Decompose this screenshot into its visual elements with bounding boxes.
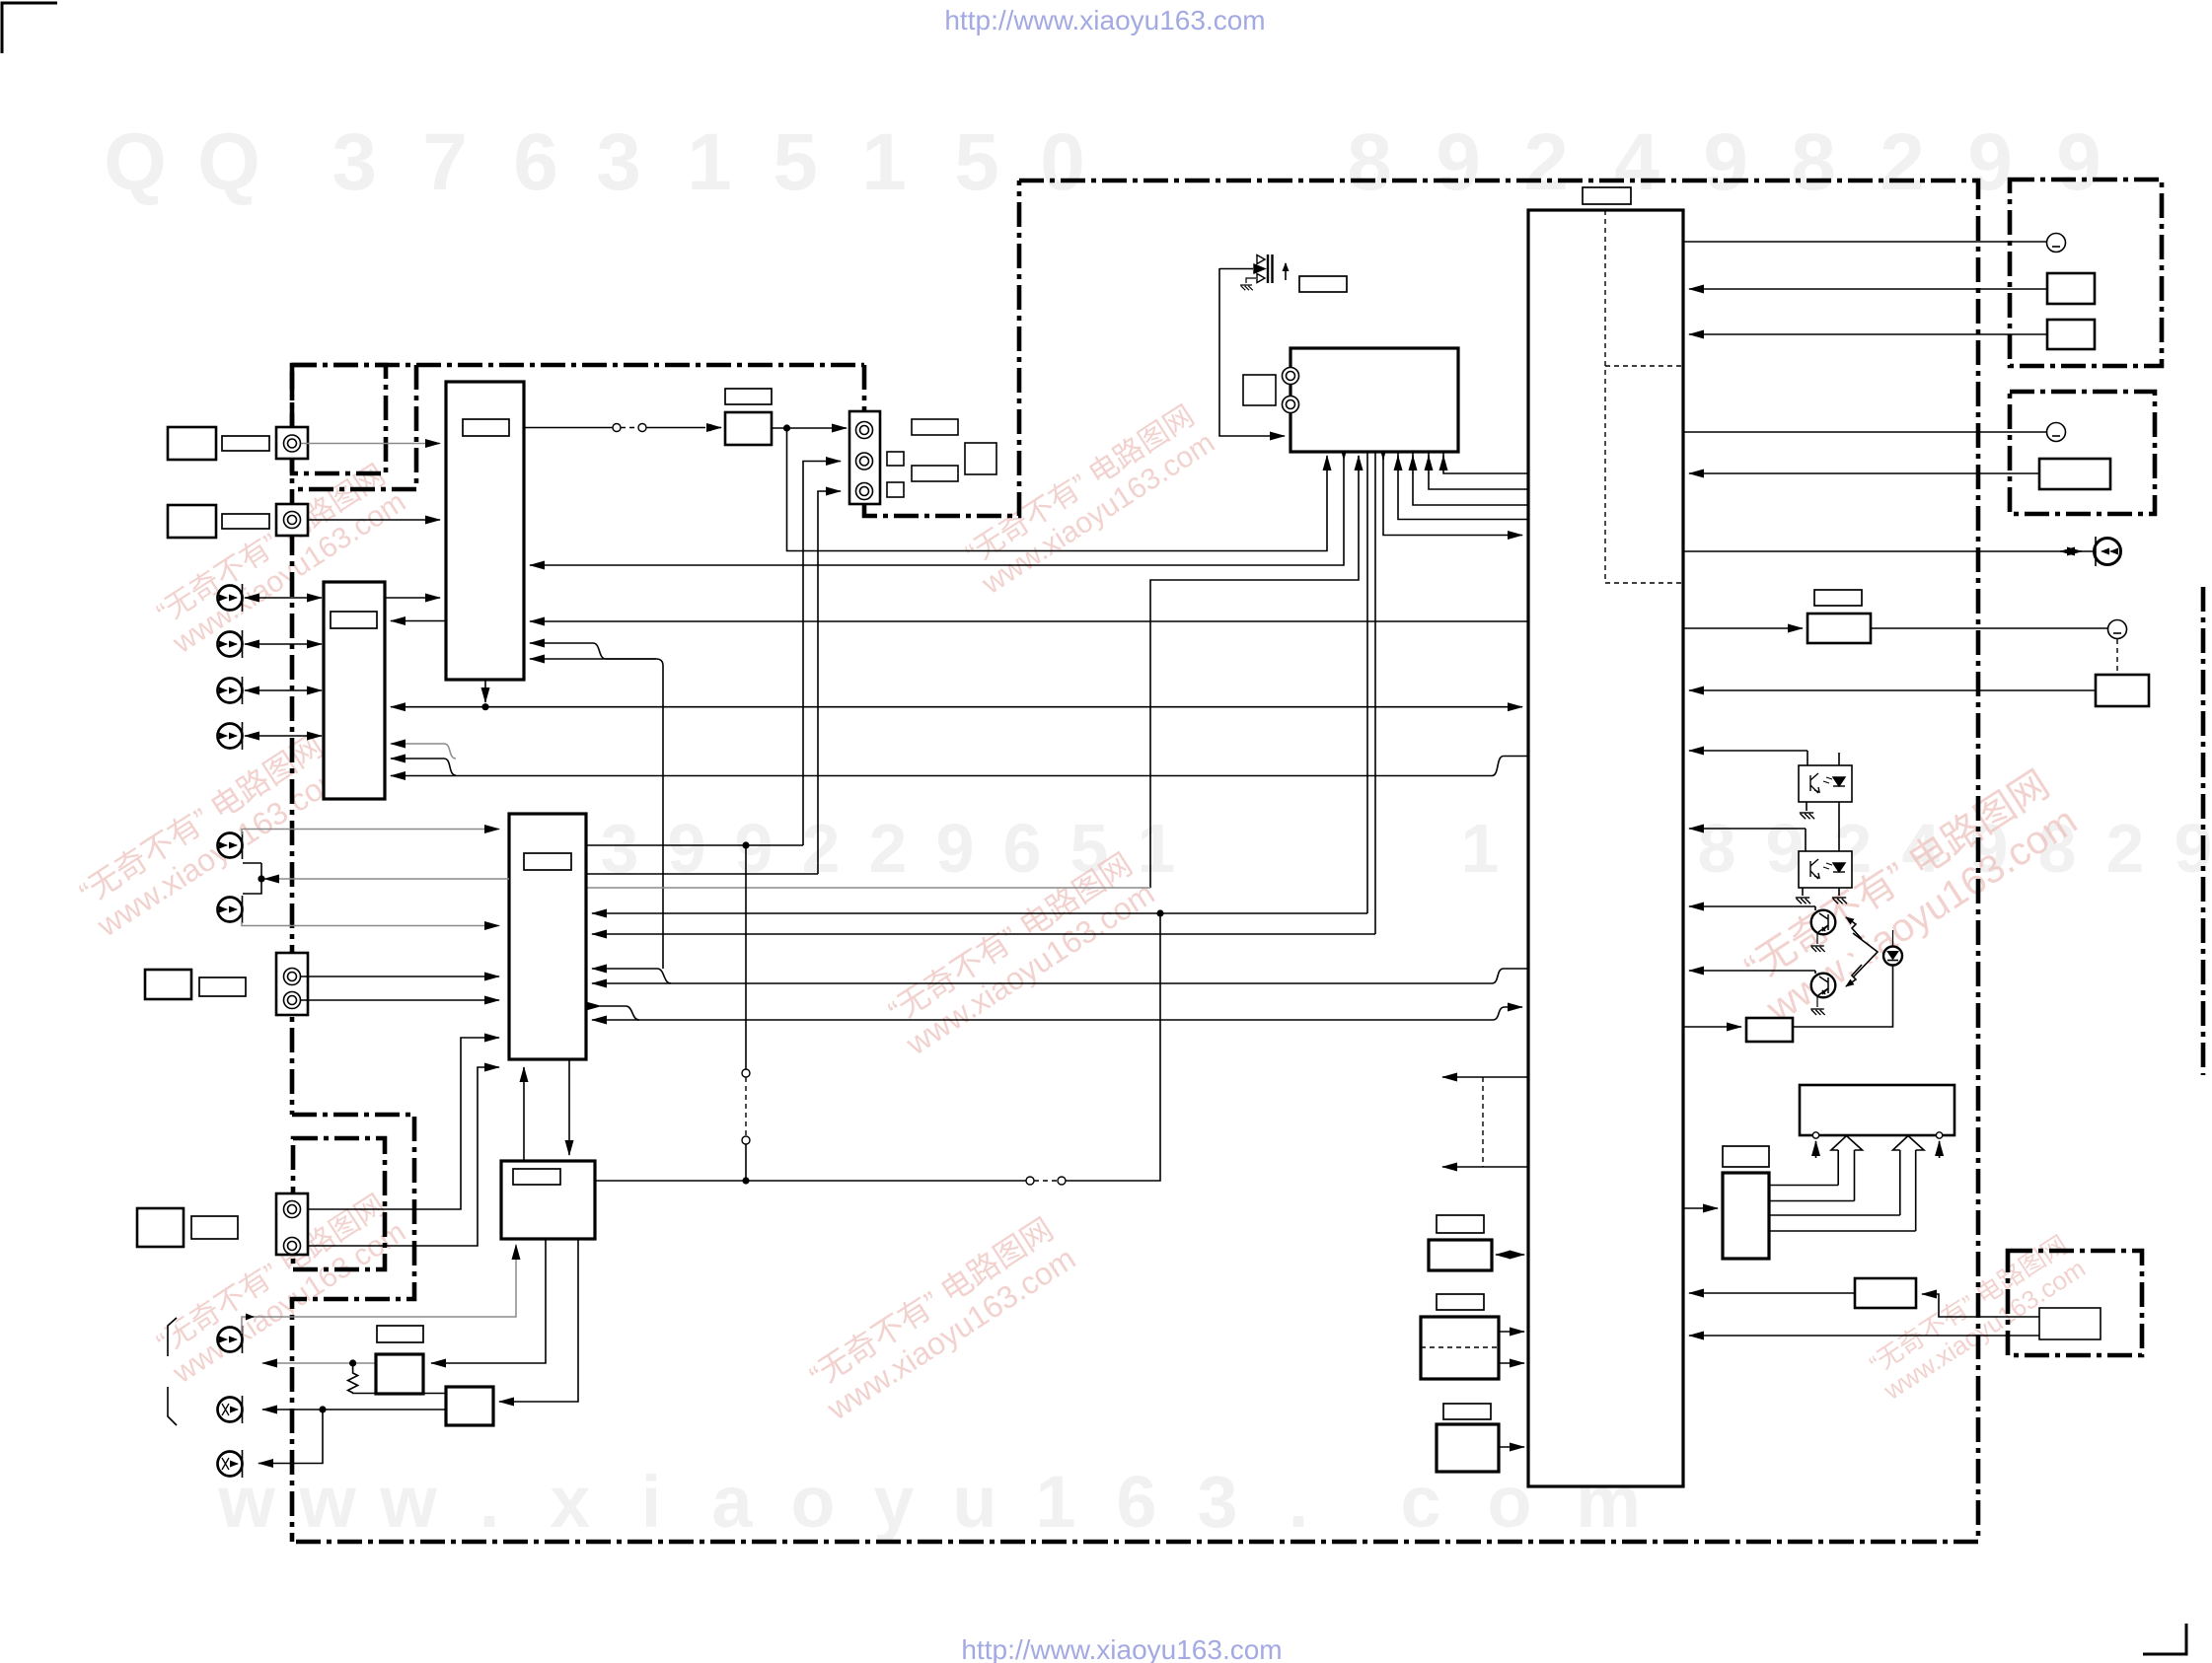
wire gray line y900 x1166 to block E: [586, 887, 1150, 889]
optocoupler PC2 internals: [1810, 859, 1845, 879]
svg-text:9: 9: [2175, 810, 2212, 887]
svg-text:2: 2: [869, 810, 908, 887]
block E main: [509, 814, 586, 1059]
wire head H7 up to block G bottom: [242, 1245, 516, 1334]
svg-text:.: .: [479, 1461, 500, 1543]
wire piezo lower lead to ground: [1246, 278, 1256, 283]
wire block B input y769 cascade: [391, 758, 444, 759]
svg-text:5: 5: [773, 117, 818, 207]
piezo sounder symbol: [1254, 254, 1273, 283]
phototransistor Q2: [1811, 974, 1836, 998]
svg-text:http://www.xiaoyu163.com: http://www.xiaoyu163.com: [961, 1634, 1282, 1663]
svg-text:9: 9: [2056, 117, 2101, 207]
hollow arrow left head: [1831, 1136, 1863, 1151]
wire IC to phototransistor Q2: [1689, 970, 1815, 972]
wire vertical x672 down to E region: [662, 666, 664, 969]
wire IC to block A y630: [530, 620, 1528, 622]
board boundary chain: top horizontal to connector: [292, 363, 864, 368]
display feed arrow left: [1815, 1141, 1817, 1158]
svg-text:Q: Q: [104, 117, 167, 207]
LED D1 top lead: [1892, 930, 1894, 947]
svg-text:x: x: [550, 1461, 590, 1543]
light chevron to LED: [1853, 933, 1878, 976]
speaker ring 2: [2047, 423, 2066, 442]
svg-text:3: 3: [596, 117, 641, 207]
ground PC1 transistor: [1806, 802, 1807, 811]
wire jack row3-2 up to block E y1082: [308, 1067, 499, 1246]
jack J2 rings: [284, 512, 301, 529]
svg-text:8: 8: [1791, 117, 1836, 207]
wire head H7 lower to block H line: [262, 1362, 376, 1364]
wire block G down to block I: [499, 1239, 578, 1402]
svg-text:8: 8: [1347, 117, 1392, 207]
block A main: [446, 382, 524, 680]
display feed arrow right: [1939, 1141, 1941, 1158]
wire line-amp to connector CN1: [772, 427, 847, 429]
block line-amp: [725, 412, 772, 445]
svg-text:9: 9: [1436, 117, 1481, 207]
wire speaker rect 2 to IC: [1689, 472, 2039, 474]
wire bus line y512 tuner to IC: [1413, 452, 1528, 505]
tape head H1: [218, 584, 243, 612]
wire tuner y588 jog to vertical x1166: [1150, 456, 1359, 776]
wire long vertical bus x1386 tuner to E-row: [1366, 452, 1368, 913]
svg-text:1: 1: [861, 117, 907, 207]
phototransistor Q1: [1811, 910, 1836, 935]
wire IC y1354 to chain box rect: [1689, 1335, 2039, 1337]
wire jack J2 to block A: [309, 519, 440, 521]
board boundary chain: jog at cassette section: [292, 365, 416, 489]
svg-text:6: 6: [1003, 810, 1042, 887]
wire block G output y1197 with jumps to IC riser: [595, 1180, 1026, 1182]
wire junction steps to H5/H6: [243, 863, 261, 894]
wire block B input y786 long line to IC y766: [391, 757, 1528, 776]
jack row3 connector body: [276, 1193, 308, 1255]
tape head H9 erase: [218, 1450, 243, 1478]
svg-text:2: 2: [2106, 810, 2145, 887]
wire speaker rect 1a to IC: [1689, 288, 2047, 290]
board boundary chain: left vertical upper: [290, 365, 295, 1115]
svg-text:Q: Q: [197, 117, 260, 207]
block I main: [446, 1387, 493, 1425]
ground Q2: [1816, 996, 1818, 1007]
square SW a: [887, 452, 904, 466]
svg-text:y: y: [873, 1461, 914, 1543]
block H main: [376, 1354, 423, 1394]
wire bus line y496 tuner to IC: [1429, 452, 1528, 489]
label rect above IC block D: [1583, 187, 1631, 204]
label block H: [377, 1326, 423, 1342]
wire block B to block A y606: [385, 597, 440, 599]
board boundary chain: connector drop: [864, 181, 1019, 516]
hollow arrow right stem wires: [1769, 1215, 1916, 1231]
wire bus line y542 tuner to IC with arrow: [1383, 456, 1522, 536]
page watermark: pink diagonal stamps: [148, 458, 411, 661]
wire block N to IC: [1689, 1292, 1855, 1294]
display block W: [1800, 1085, 1954, 1135]
block G main: [501, 1161, 595, 1239]
speaker rect 2: [2039, 459, 2110, 489]
wire block A cascade input y668 to vertical x672: [530, 658, 656, 660]
light bolt arrow to Q2: [1846, 965, 1862, 986]
tape head H3: [218, 677, 243, 704]
label block G: [513, 1169, 560, 1185]
wire piezo feed from bus: [1219, 268, 1285, 436]
wire block K to IC lower: [1499, 1362, 1524, 1364]
connector CN1 ring 3: [856, 483, 873, 500]
board boundary chain: lower-left inner box: [293, 1138, 385, 1269]
wire IC to optocoupler PC1: [1689, 750, 1807, 752]
wire jack row2-2 to block E: [301, 999, 499, 1001]
ext tape head symbol right: [2095, 537, 2121, 566]
label block K: [1437, 1294, 1484, 1310]
wire head H1 to block B bidirectional: [245, 597, 322, 599]
wire CN1 ring2 from switch vertical x814: [803, 462, 841, 846]
jack row2 connector body: [276, 953, 308, 1015]
svg-text:w: w: [298, 1461, 356, 1543]
connector CN1 ring 1: [856, 422, 873, 439]
wire long y1034 block E to IC arrow: [592, 1007, 1522, 1020]
wire IC to ext head bidirectional y559: [1683, 550, 2094, 552]
hollow arrow right head: [1893, 1136, 1925, 1151]
square left of block C: [1243, 375, 1276, 405]
svg-text:9: 9: [735, 810, 774, 887]
svg-text:2: 2: [1523, 117, 1569, 207]
connector CN1 body: [849, 411, 880, 504]
square matrix big: [965, 443, 996, 474]
svg-text:w: w: [379, 1461, 437, 1543]
block remote driver: [1807, 614, 1871, 643]
up arrow beside piezo: [1285, 263, 1287, 280]
svg-text:i: i: [641, 1461, 662, 1543]
wire block E y886 to switch vertical x829: [586, 873, 818, 875]
speaker rect 1a: [2047, 273, 2095, 304]
board boundary chain: top-left cassette box: [292, 365, 386, 473]
wire block L to IC: [1499, 1446, 1524, 1448]
wire vertical x756 with jump down to motor line: [745, 845, 747, 1069]
svg-text:6: 6: [513, 117, 558, 207]
tape head H8 erase: [218, 1396, 243, 1423]
wire head H2 to block B bidirectional: [245, 643, 322, 645]
wire vertical x1166 junction to gray E line: [1149, 776, 1151, 889]
svg-text:7: 7: [422, 117, 468, 207]
IC block D main: [1528, 210, 1683, 1486]
crop mark bottom-right: [2143, 1624, 2186, 1654]
wire long line y716 block B to IC: [391, 706, 1522, 708]
display feed circle right: [1936, 1132, 1942, 1138]
svg-text:0: 0: [1040, 117, 1085, 207]
svg-text:9: 9: [936, 810, 975, 887]
wire IC to speaker ring 2: [1683, 431, 2047, 433]
square SW b: [887, 482, 904, 497]
wire block E input y926 from bus x1386: [592, 912, 1367, 914]
speaker box chain top-right 2: [2010, 392, 2155, 514]
board boundary chain: main outline top/right/bottom: [292, 181, 1978, 1542]
jack J1 square: [276, 427, 308, 459]
svg-text:9: 9: [1703, 117, 1748, 207]
rect matrix upper: [912, 419, 958, 435]
svg-text:1: 1: [687, 117, 732, 207]
svg-text:1: 1: [1035, 1461, 1075, 1543]
bracket mechanism lower: [168, 1387, 177, 1425]
wire jack J1 to block A: [301, 443, 440, 445]
jack row3 ring2: [284, 1238, 301, 1255]
wire head H3 to block B bidirectional: [245, 689, 322, 691]
rect source R top: [168, 505, 216, 538]
ground Q1: [1816, 933, 1818, 944]
rect inside chain box SE: [2039, 1308, 2101, 1339]
block K internal dashed split: [1421, 1346, 1499, 1348]
label block P2: [1723, 1146, 1769, 1167]
wire bus line y526 tuner to IC: [1398, 452, 1528, 520]
resistor R1 vertical: [348, 1363, 446, 1394]
connector CN1 ring 2: [856, 453, 873, 470]
label rect line-amp: [725, 389, 772, 404]
wire IC to optocoupler PC2: [1689, 828, 1806, 830]
block C jack ring 2: [1283, 397, 1299, 413]
label rect source L: [222, 436, 269, 451]
block C main: [1290, 348, 1458, 452]
jack J1 rings: [284, 435, 301, 452]
label rect remote: [1814, 590, 1862, 606]
label rect row2: [199, 977, 246, 996]
svg-text:u: u: [952, 1461, 996, 1543]
wire IC to remote driver: [1683, 627, 1803, 629]
ground PC2 led: [1838, 888, 1840, 896]
svg-text:3: 3: [332, 117, 377, 207]
svg-text:3: 3: [1197, 1461, 1237, 1543]
wire remote driver to jack ring: [1871, 627, 2108, 629]
svg-text:9: 9: [668, 810, 706, 887]
wire long y997 block E to IC: [592, 969, 1528, 983]
svg-text:2: 2: [1880, 117, 1925, 207]
speaker ring 1: [2047, 234, 2066, 253]
rect source row2: [145, 970, 191, 999]
wire bus line y480 tuner to IC: [1443, 452, 1528, 473]
wire jack row3-1 up to block E y1052: [308, 1038, 499, 1209]
svg-text:http://www.xiaoyu163.com: http://www.xiaoyu163.com: [944, 5, 1265, 36]
wire block K to IC upper: [1499, 1331, 1524, 1333]
label rect source R: [222, 514, 269, 529]
rect matrix lower: [912, 466, 958, 481]
tape head H2: [218, 630, 243, 658]
wire long vertical bus x1394 tuner to E-row: [1374, 452, 1376, 934]
label block L: [1443, 1404, 1491, 1419]
rect remote sense: [2096, 675, 2149, 706]
tape head H5: [218, 831, 243, 859]
wire head H6 to block E y938: [242, 922, 499, 926]
wire block A cascade input y652: [530, 642, 593, 644]
wire block E input y982 cascade: [592, 968, 657, 970]
wire block E to G link down-arrow: [568, 1059, 570, 1155]
block J main: [1429, 1240, 1492, 1270]
block L main: [1437, 1424, 1499, 1472]
wire sense rect to block N: [1922, 1294, 2039, 1317]
svg-text:1: 1: [1461, 810, 1500, 887]
ground piezo: [1240, 285, 1253, 290]
block B main: [324, 582, 385, 799]
label block B: [331, 612, 377, 628]
speaker box chain top-right 1: [2010, 180, 2162, 366]
LED D1: [1883, 947, 1902, 966]
bracket mechanism upper: [168, 1318, 177, 1356]
block N main: [1855, 1278, 1916, 1308]
wire IC out y1092: [1442, 1076, 1528, 1078]
block P1 LED driver: [1746, 1018, 1793, 1042]
wire remote sense to IC: [1689, 689, 2096, 691]
wire block E to heads junction y891: [264, 878, 509, 880]
svg-text:1: 1: [1138, 810, 1176, 887]
block K main: [1421, 1317, 1499, 1379]
tape head H7: [218, 1326, 243, 1353]
wire head H8 line to block I: [262, 1409, 446, 1410]
svg-text:o: o: [790, 1461, 835, 1543]
jack J2 square: [276, 504, 308, 536]
svg-text:6: 6: [1116, 1461, 1156, 1543]
board boundary chain: lower-left jog: [292, 1115, 414, 1542]
tape head H6: [218, 896, 243, 923]
wire block E to G link up-arrow: [523, 1067, 525, 1161]
wire IC to phototransistor Q1: [1689, 905, 1815, 907]
wire IC to block P2: [1683, 1207, 1718, 1209]
svg-text:.: .: [1289, 1461, 1309, 1543]
wire IC to block P1: [1683, 1026, 1741, 1028]
wire block G down to block H: [431, 1239, 546, 1363]
label block E: [524, 853, 571, 870]
wire block A to block B y629: [391, 620, 446, 622]
wire tuner down-left y573 to block A: [530, 460, 1344, 565]
wire block P1 to LED D1: [1793, 966, 1893, 1028]
svg-text:3: 3: [601, 810, 639, 887]
jack row2 ring2: [284, 992, 301, 1009]
label block A: [463, 419, 509, 436]
label rect piezo: [1299, 276, 1347, 292]
wire CN1 ring3 from switch vertical x829: [818, 491, 841, 874]
wire block B input y754 cascade: [391, 743, 444, 745]
optocoupler PC2 body: [1799, 851, 1852, 888]
wire jack row2-1 to block E: [301, 976, 499, 977]
svg-text:9: 9: [1967, 117, 2013, 207]
ground PC2 transistor: [1802, 888, 1804, 896]
wire head H8 junction down to head H9: [258, 1410, 323, 1464]
crop mark top-left: [2, 3, 57, 53]
svg-text:5: 5: [954, 117, 999, 207]
block P2 driver: [1723, 1173, 1769, 1259]
display feed circle left: [1812, 1132, 1818, 1138]
wire head H4 to block B bidirectional: [245, 735, 322, 737]
speaker rect 1b: [2047, 320, 2095, 349]
wire IC out y1183: [1442, 1166, 1528, 1168]
svg-text:2: 2: [802, 810, 841, 887]
label block J: [1437, 1215, 1484, 1233]
IC block D internal dashed divider: [1604, 210, 1606, 583]
wire block A bottom to long line y716: [484, 680, 486, 702]
optocoupler PC1 body: [1799, 765, 1852, 802]
chain segment right page edge: [2201, 587, 2206, 1075]
wire speaker rect 1b to IC: [1689, 333, 2047, 335]
wire block A output y433 with jumps to line amp: [524, 427, 613, 429]
dashed link x1503: [1482, 1077, 1484, 1167]
wire block E input y947 from bus x1394: [592, 933, 1375, 935]
wire head H5 top to block E y841: [242, 830, 499, 835]
svg-text:a: a: [711, 1461, 753, 1543]
rect source row3: [137, 1208, 184, 1247]
tape head H4: [218, 722, 243, 750]
wire block E out y1020 cascade: [600, 1005, 626, 1007]
jack row3 ring1: [284, 1201, 301, 1218]
hollow arrow left stem wires: [1769, 1186, 1855, 1201]
light bolt arrow to Q1: [1846, 917, 1862, 939]
LED feed vertical through PC1: [1838, 753, 1840, 851]
label rect row3: [191, 1216, 238, 1239]
dashed link jack to sense rect: [2116, 639, 2118, 675]
wire tuner down-left y558 to detector dot: [787, 428, 1328, 551]
rect source L top: [168, 427, 216, 460]
remote jack ring: [2108, 620, 2127, 639]
chain box bottom-right: [2008, 1251, 2142, 1355]
jack row2 ring1: [284, 969, 301, 985]
wire block J to IC bidirectional: [1496, 1254, 1524, 1256]
optocoupler PC1 internals: [1810, 773, 1845, 793]
wire block E y857 to switch vertical x814: [586, 844, 803, 846]
wire IC to speaker ring 1: [1683, 241, 2047, 243]
block C jack ring 1: [1283, 368, 1299, 385]
svg-text:8: 8: [1698, 810, 1736, 887]
